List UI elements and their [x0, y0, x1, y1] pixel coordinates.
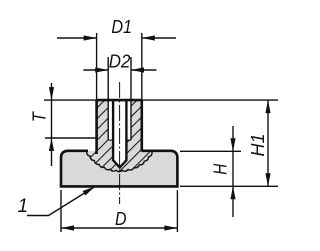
D1 extension line right: [141, 33, 143, 100]
D1 dimension line right with arrow: [142, 37, 176, 39]
H1 dimension line with arrows: [267, 100, 269, 186]
H1 top extension line: [142, 99, 278, 101]
svg-text:1: 1: [18, 196, 29, 217]
svg-text:H1: H1: [248, 134, 268, 157]
drill hole walls and point: [113, 100, 126, 167]
T bottom extension line: [45, 137, 97, 139]
H top extension line: [180, 150, 241, 152]
D extension line left: [60, 190, 62, 232]
H dimension line with arrows: [232, 126, 234, 217]
disc outline: [61, 151, 177, 187]
svg-text:D2: D2: [109, 52, 131, 72]
thread end tick left: [108, 139, 113, 141]
D1 dimension line left with arrow: [57, 37, 97, 39]
centerline (axis): [119, 82, 121, 204]
T top extension line: [44, 99, 97, 101]
part label 1 leader: [27, 187, 95, 216]
D1 extension line left: [96, 33, 98, 100]
thread major diameter line right + D2 extension: [130, 57, 132, 140]
hatched section region: [87, 100, 152, 172]
wavy break-out line: [87, 151, 152, 172]
thread end tick right: [126, 139, 131, 141]
boss (threaded bushing) body fill: [97, 100, 142, 151]
H/H1 bottom extension line: [180, 185, 278, 187]
D2 dimension line right with arrow: [131, 69, 156, 71]
thread major diameter line left + D2 extension: [107, 57, 109, 140]
svg-text:D1: D1: [111, 17, 132, 37]
svg-text:H: H: [211, 163, 231, 175]
magnet disc body (part 1): [61, 151, 177, 187]
thread relief strips (white): [108, 100, 113, 140]
D2 dimension line left with arrow: [83, 69, 108, 71]
svg-text:D: D: [115, 209, 127, 229]
D extension line right: [176, 190, 178, 232]
boss outline: [97, 100, 142, 154]
D dimension line with arrows: [61, 227, 177, 229]
T dimension line with arrows: [51, 83, 53, 166]
drill hole interior (white) with drill point: [113, 100, 126, 167]
